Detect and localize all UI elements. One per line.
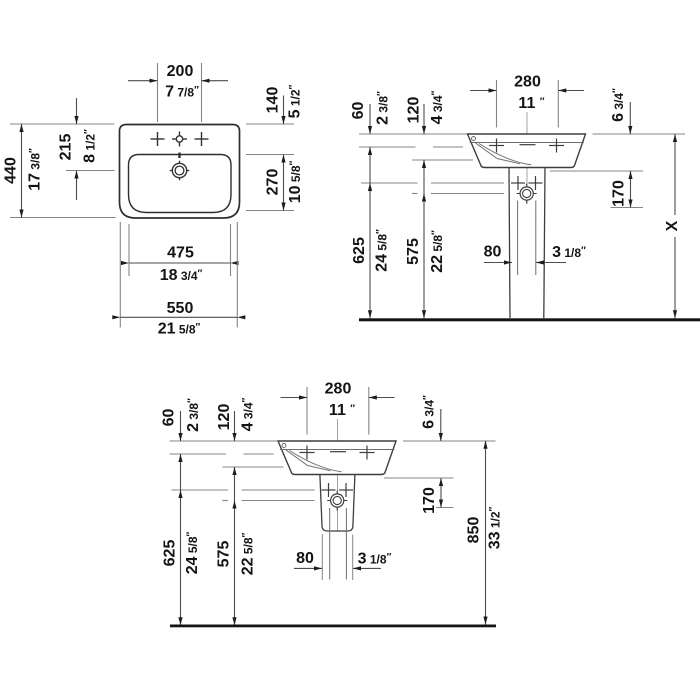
svg-text:21 5/8″: 21 5/8″ — [158, 321, 201, 338]
svg-text:140: 140 — [265, 87, 282, 114]
svg-text:24 5/8″: 24 5/8″ — [374, 229, 391, 272]
svg-text:120: 120 — [216, 404, 233, 431]
svg-text:60: 60 — [161, 409, 178, 427]
svg-text:550: 550 — [167, 300, 194, 317]
svg-text:17 3/8″: 17 3/8″ — [27, 148, 44, 191]
svg-text:22 5/8″: 22 5/8″ — [429, 230, 446, 273]
svg-text:475: 475 — [167, 245, 194, 262]
svg-text:625: 625 — [162, 540, 179, 567]
svg-text:3 1/8″: 3 1/8″ — [358, 551, 392, 568]
svg-text:10 5/8″: 10 5/8″ — [287, 160, 304, 203]
svg-text:4 3/4″: 4 3/4″ — [429, 90, 446, 124]
svg-text:22 5/8″: 22 5/8″ — [240, 532, 257, 575]
svg-text:270: 270 — [265, 169, 282, 196]
svg-text:215: 215 — [58, 134, 75, 161]
svg-text:60: 60 — [350, 102, 367, 120]
svg-text:850: 850 — [466, 517, 483, 544]
svg-text:80: 80 — [484, 244, 502, 261]
svg-text:24 5/8″: 24 5/8″ — [184, 531, 201, 574]
svg-text:440: 440 — [3, 157, 20, 184]
svg-text:18 3/4″: 18 3/4″ — [160, 267, 203, 284]
svg-text:3 1/8″: 3 1/8″ — [552, 244, 586, 261]
svg-text:625: 625 — [351, 237, 368, 264]
svg-text:5 1/2″: 5 1/2″ — [287, 84, 304, 118]
svg-text:33 1/2″: 33 1/2″ — [487, 506, 504, 549]
svg-text:170: 170 — [421, 487, 438, 514]
svg-text:X: X — [664, 220, 681, 231]
svg-text:120: 120 — [406, 97, 423, 124]
svg-text:6 3/4″: 6 3/4″ — [610, 88, 627, 122]
svg-text:2 3/8″: 2 3/8″ — [185, 398, 202, 432]
svg-text:4 3/4″: 4 3/4″ — [240, 397, 257, 431]
svg-text:80: 80 — [296, 550, 314, 567]
svg-text:170: 170 — [611, 180, 628, 207]
svg-text:6 3/4″: 6 3/4″ — [421, 395, 438, 429]
svg-text:575: 575 — [216, 541, 233, 568]
svg-text:280: 280 — [325, 381, 352, 398]
svg-text:2 3/8″: 2 3/8″ — [375, 91, 392, 125]
svg-text:8 1/2″: 8 1/2″ — [82, 129, 99, 163]
svg-text:575: 575 — [405, 238, 422, 265]
svg-text:7 7/8″: 7 7/8″ — [165, 84, 199, 101]
svg-text:200: 200 — [167, 63, 194, 80]
svg-text:280: 280 — [514, 74, 541, 91]
